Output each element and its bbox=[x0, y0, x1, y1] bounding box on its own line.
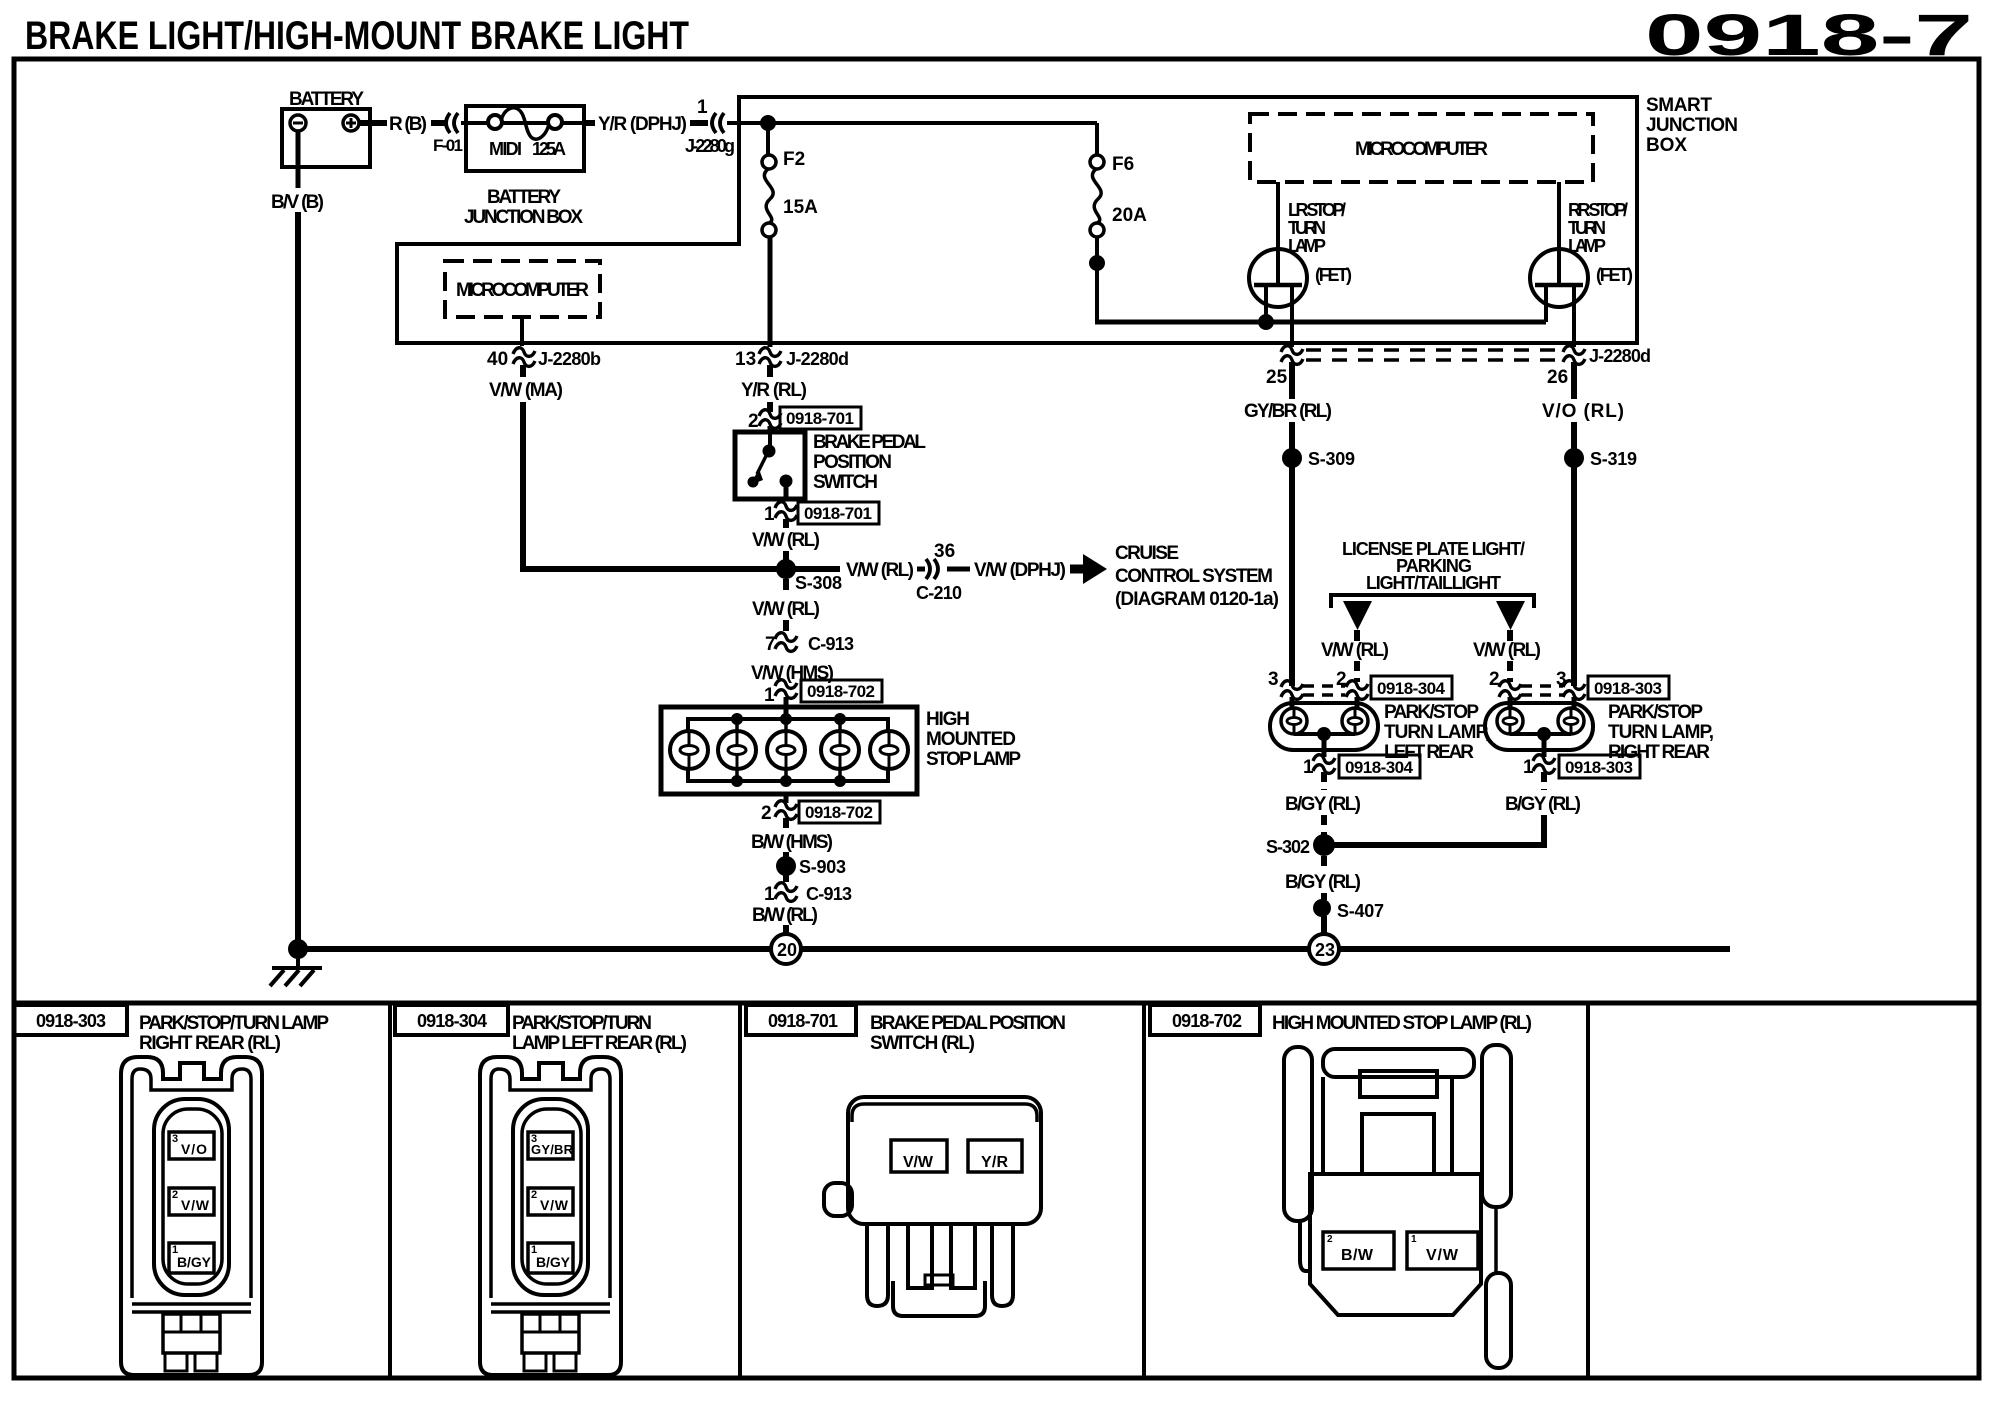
svg-text:2: 2 bbox=[761, 803, 772, 824]
svg-text:S-319: S-319 bbox=[1590, 449, 1637, 469]
wire S-302 down bbox=[1321, 856, 1327, 870]
svg-text:15A: 15A bbox=[783, 197, 818, 218]
svg-text:1: 1 bbox=[764, 685, 775, 706]
svg-text:BRAKE LIGHT/HIGH-MOUNT BRAKE L: BRAKE LIGHT/HIGH-MOUNT BRAKE LIGHT bbox=[25, 14, 689, 58]
connector pin 40 J-2280b bbox=[520, 317, 524, 346]
node junction at F2 branch bbox=[760, 115, 776, 131]
wire into lamp bbox=[784, 697, 789, 719]
svg-text:25: 25 bbox=[1266, 367, 1288, 388]
svg-text:STOP LAMP: STOP LAMP bbox=[926, 749, 1021, 770]
node LR FET source to rail bbox=[1258, 314, 1274, 330]
panel 2 header 0918-304 bbox=[395, 1005, 508, 1035]
svg-text:V/W (DPHJ): V/W (DPHJ) bbox=[974, 560, 1066, 581]
wire to ground 23 bbox=[1321, 916, 1327, 936]
svg-text:3: 3 bbox=[1556, 669, 1567, 690]
connector J-2280g pin 1 bbox=[712, 113, 724, 133]
svg-text:CONTROL SYSTEM: CONTROL SYSTEM bbox=[1115, 566, 1273, 587]
main frame bbox=[14, 59, 1979, 1003]
svg-text:B/V (B): B/V (B) bbox=[271, 192, 324, 213]
battery negative wire B/V (B) bbox=[296, 131, 301, 188]
svg-text:0918-702: 0918-702 bbox=[1172, 1011, 1242, 1031]
connector 0918-304 pins 3,2 (left rear lamp) bbox=[1268, 669, 1452, 699]
connector pin 2 0918-702 bbox=[775, 801, 797, 820]
svg-text:V/W (MA): V/W (MA) bbox=[489, 380, 563, 401]
wire bbox=[584, 120, 595, 126]
wire down to F2 bbox=[766, 123, 770, 155]
svg-text:GY/BR (RL): GY/BR (RL) bbox=[1244, 401, 1332, 422]
svg-text:CRUISE: CRUISE bbox=[1115, 543, 1179, 564]
microcomputer (right) bbox=[1250, 114, 1593, 182]
svg-text:B/GY (RL): B/GY (RL) bbox=[1505, 794, 1581, 815]
arrow feed right bbox=[1496, 601, 1525, 641]
svg-text:1: 1 bbox=[1303, 757, 1314, 778]
svg-text:BATTERY: BATTERY bbox=[289, 89, 364, 110]
svg-text:MIDI: MIDI bbox=[489, 139, 522, 159]
svg-text:F6: F6 bbox=[1112, 154, 1134, 175]
node ground junction bbox=[288, 939, 308, 959]
svg-text:TURN LAMP,: TURN LAMP, bbox=[1608, 722, 1714, 743]
wire right lamp to S-302 bbox=[1324, 815, 1544, 845]
connector C-913 pin 7 bbox=[775, 633, 797, 652]
svg-text:B/W (HMS): B/W (HMS) bbox=[751, 832, 833, 853]
wire V/O down to lamp bbox=[1571, 422, 1577, 686]
svg-text:S-407: S-407 bbox=[1337, 901, 1384, 921]
panel 4 header 0918-702 bbox=[1150, 1005, 1260, 1035]
fuse F6 20A bbox=[1090, 155, 1104, 237]
svg-text:36: 36 bbox=[934, 541, 955, 562]
svg-text:13: 13 bbox=[735, 349, 756, 370]
svg-text:2: 2 bbox=[531, 1189, 537, 1201]
svg-text:R (B): R (B) bbox=[389, 114, 427, 135]
svg-text:MOUNTED: MOUNTED bbox=[926, 729, 1016, 750]
connector pin 1 0918-702 bbox=[775, 680, 797, 699]
wire S-308 right bbox=[786, 566, 840, 572]
wire bbox=[917, 567, 925, 572]
svg-text:B/GY: B/GY bbox=[536, 1254, 571, 1270]
brake pedal position switch bbox=[735, 432, 805, 499]
svg-text:1: 1 bbox=[697, 97, 708, 118]
wire to S-308 bbox=[783, 551, 789, 562]
svg-text:POSITION: POSITION bbox=[813, 452, 892, 473]
transistor LR FET bbox=[1249, 249, 1307, 347]
wire bbox=[783, 852, 789, 858]
wire V/W (MA) down and right to S-308 bbox=[523, 402, 778, 569]
svg-text:20: 20 bbox=[777, 940, 797, 960]
wire right pin1 down bbox=[1541, 772, 1547, 790]
svg-text:(DIAGRAM 0120-1a): (DIAGRAM 0120-1a) bbox=[1115, 589, 1279, 610]
svg-text:J-2280d: J-2280d bbox=[1589, 346, 1651, 366]
wire bbox=[461, 121, 468, 125]
wire to lamp pin 2 right bbox=[1507, 661, 1513, 682]
panel 3 header 0918-701 bbox=[746, 1005, 856, 1035]
svg-text:TURN LAMP,: TURN LAMP, bbox=[1384, 722, 1490, 743]
node S-407 bbox=[1313, 899, 1331, 917]
connector drawing 0918-304 (left rear lamp connector) bbox=[480, 1057, 621, 1375]
svg-text:LIGHT/TAILLIGHT: LIGHT/TAILLIGHT bbox=[1366, 573, 1501, 593]
connector 0918-303 pins 2,3 (right rear lamp) bbox=[1489, 669, 1669, 699]
connector J-2280d pins 25/26 bbox=[1266, 346, 1651, 388]
svg-text:LR STOP/: LR STOP/ bbox=[1288, 200, 1346, 220]
wire F6 down bbox=[1095, 237, 1099, 322]
node below F6 bbox=[1089, 255, 1105, 271]
svg-text:C-210: C-210 bbox=[916, 583, 962, 603]
fuse F2 15A bbox=[762, 155, 776, 237]
svg-text:TURN: TURN bbox=[1288, 218, 1326, 238]
svg-text:TURN: TURN bbox=[1568, 218, 1606, 238]
svg-text:BRAKE PEDAL POSITION: BRAKE PEDAL POSITION bbox=[870, 1013, 1066, 1034]
svg-text:0918-303: 0918-303 bbox=[36, 1011, 106, 1031]
wire pin 26 bbox=[1571, 362, 1577, 399]
svg-text:V/W: V/W bbox=[181, 1197, 210, 1213]
wire gate RR FET bbox=[1557, 182, 1561, 285]
transistor RR FET bbox=[1530, 249, 1588, 347]
node S-309 bbox=[1282, 448, 1302, 468]
svg-text:V/W: V/W bbox=[540, 1197, 569, 1213]
wire bbox=[768, 426, 773, 433]
svg-text:0918-304: 0918-304 bbox=[1345, 758, 1414, 777]
bracket to license plate light bbox=[1331, 595, 1534, 608]
svg-text:J-2280d: J-2280d bbox=[786, 349, 849, 369]
svg-text:V/W: V/W bbox=[1426, 1247, 1459, 1264]
svg-text:B/W (RL): B/W (RL) bbox=[752, 905, 818, 926]
ground symbol bbox=[270, 954, 322, 986]
wire bbox=[783, 818, 789, 830]
svg-text:J-2280b: J-2280b bbox=[538, 349, 601, 369]
wire battery positive to R (B) bbox=[359, 120, 387, 126]
wire bbox=[947, 567, 970, 572]
svg-text:7: 7 bbox=[765, 634, 776, 655]
svg-text:GY/BR: GY/BR bbox=[531, 1142, 574, 1157]
svg-text:0918-701: 0918-701 bbox=[786, 409, 854, 428]
svg-text:0918-701: 0918-701 bbox=[768, 1011, 838, 1031]
svg-text:HIGH MOUNTED STOP LAMP (RL): HIGH MOUNTED STOP LAMP (RL) bbox=[1272, 1013, 1532, 1034]
svg-text:2: 2 bbox=[1489, 669, 1500, 690]
svg-text:B/GY (RL): B/GY (RL) bbox=[1285, 872, 1361, 893]
svg-text:2: 2 bbox=[748, 411, 759, 432]
svg-text:SMART: SMART bbox=[1646, 95, 1712, 116]
svg-text:0918-303: 0918-303 bbox=[1565, 758, 1633, 777]
svg-text:V/W (RL): V/W (RL) bbox=[846, 560, 914, 581]
svg-text:BRAKE PEDAL: BRAKE PEDAL bbox=[813, 432, 926, 453]
wire F2 to J-2280d pin 13 bbox=[768, 237, 773, 347]
node S-302 bbox=[1313, 834, 1335, 856]
connector drawing 0918-701 (brake pedal position switch connector) bbox=[824, 1097, 1041, 1316]
connector F-01 bbox=[446, 113, 458, 133]
connector C-210 pin 36 bbox=[926, 559, 938, 579]
high mounted stop lamp bbox=[661, 707, 917, 794]
svg-text:23: 23 bbox=[1315, 940, 1335, 960]
svg-text:JUNCTION BOX: JUNCTION BOX bbox=[464, 207, 583, 228]
svg-text:RR STOP/: RR STOP/ bbox=[1568, 200, 1628, 220]
svg-text:2: 2 bbox=[172, 1189, 178, 1201]
svg-text:S-903: S-903 bbox=[799, 857, 846, 877]
wire bbox=[783, 519, 789, 528]
svg-text:PARK/STOP/TURN LAMP: PARK/STOP/TURN LAMP bbox=[139, 1013, 329, 1034]
wire bbox=[431, 120, 445, 126]
wire GY/BR down to lamp bbox=[1289, 422, 1295, 686]
wire to ground 20 bbox=[783, 925, 789, 936]
panel 1 header 0918-303 bbox=[14, 1005, 127, 1035]
svg-text:Y/R (DPHJ): Y/R (DPHJ) bbox=[598, 114, 687, 135]
svg-text:125A: 125A bbox=[532, 139, 566, 159]
svg-text:1: 1 bbox=[764, 504, 775, 525]
svg-text:(FET): (FET) bbox=[1596, 265, 1633, 285]
connector drawing 0918-702 (high mounted stop lamp connector) bbox=[1284, 1045, 1511, 1368]
svg-text:HIGH: HIGH bbox=[926, 709, 970, 730]
ground connector 20 bbox=[771, 934, 801, 964]
svg-text:MICROCOMPUTER: MICROCOMPUTER bbox=[1355, 139, 1488, 160]
svg-text:LAMP LEFT REAR (RL): LAMP LEFT REAR (RL) bbox=[512, 1033, 687, 1054]
svg-text:0918-304: 0918-304 bbox=[417, 1011, 487, 1031]
svg-text:3: 3 bbox=[172, 1133, 178, 1145]
svg-text:V/W: V/W bbox=[903, 1154, 934, 1171]
svg-text:S-309: S-309 bbox=[1308, 449, 1355, 469]
svg-text:0918-304: 0918-304 bbox=[1377, 679, 1446, 698]
svg-text:PARK/STOP/TURN: PARK/STOP/TURN bbox=[512, 1013, 652, 1034]
connector C-913 pin 1 bbox=[775, 883, 797, 902]
svg-text:J-2280g: J-2280g bbox=[685, 136, 735, 156]
svg-text:1: 1 bbox=[1523, 757, 1534, 778]
wire bbox=[1321, 893, 1327, 900]
svg-text:V/W (RL): V/W (RL) bbox=[752, 530, 820, 551]
svg-text:(FET): (FET) bbox=[1315, 265, 1352, 285]
microcomputer (left) bbox=[445, 261, 600, 317]
svg-text:F-01: F-01 bbox=[433, 136, 463, 155]
wire gate LR FET bbox=[1276, 182, 1280, 285]
wire bbox=[690, 120, 708, 126]
connector pin 1 0918-701 bbox=[775, 502, 797, 521]
svg-text:3: 3 bbox=[1268, 669, 1279, 690]
svg-text:C-913: C-913 bbox=[806, 884, 852, 904]
connector drawing 0918-303 (right rear lamp connector) bbox=[121, 1057, 262, 1375]
bottom panel row bbox=[14, 1003, 1979, 1378]
fuse MIDI 125A (battery junction box) bbox=[466, 106, 584, 171]
node S-903 bbox=[776, 856, 796, 876]
wires into right lamp bbox=[1508, 697, 1513, 708]
svg-text:V/O (RL): V/O (RL) bbox=[1542, 401, 1624, 422]
arrow feed left (from license plate light circuit) bbox=[1343, 601, 1372, 641]
svg-text:RIGHT REAR (RL): RIGHT REAR (RL) bbox=[139, 1033, 281, 1054]
svg-text:BOX: BOX bbox=[1646, 135, 1687, 156]
svg-text:V/W (RL): V/W (RL) bbox=[1473, 640, 1541, 661]
svg-text:BATTERY: BATTERY bbox=[487, 187, 561, 208]
wires into left lamp bbox=[1290, 697, 1295, 708]
svg-text:V/O: V/O bbox=[181, 1141, 207, 1157]
wire bbox=[783, 874, 789, 884]
svg-text:40: 40 bbox=[487, 349, 508, 370]
ground bus bbox=[298, 946, 1730, 952]
ground connector 23 bbox=[1309, 934, 1339, 964]
wire rail to FETs bbox=[1095, 320, 1546, 325]
wire out of lamp bbox=[784, 794, 789, 803]
svg-text:26: 26 bbox=[1547, 367, 1568, 388]
wire Y/R down to switch pin 2 bbox=[767, 402, 773, 412]
svg-text:2: 2 bbox=[1336, 669, 1347, 690]
svg-text:1: 1 bbox=[1411, 1234, 1417, 1245]
svg-text:2: 2 bbox=[1327, 1234, 1333, 1245]
svg-text:0918-702: 0918-702 bbox=[805, 803, 873, 822]
battery bbox=[282, 109, 370, 167]
svg-text:C-913: C-913 bbox=[808, 634, 854, 654]
svg-text:0918-701: 0918-701 bbox=[804, 504, 872, 523]
wire bbox=[783, 620, 789, 634]
svg-text:MICROCOMPUTER: MICROCOMPUTER bbox=[456, 280, 589, 301]
wire left pin1 down bbox=[1321, 772, 1327, 790]
wire to lamp pin 2 left bbox=[1354, 661, 1360, 682]
svg-text:B/GY: B/GY bbox=[177, 1254, 212, 1270]
svg-text:0918-303: 0918-303 bbox=[1594, 679, 1662, 698]
connector pin 13 J-2280d bbox=[759, 348, 781, 367]
node S-319 bbox=[1564, 448, 1584, 468]
svg-text:V/W (RL): V/W (RL) bbox=[752, 599, 820, 620]
svg-text:Y/R (RL): Y/R (RL) bbox=[741, 380, 807, 401]
connector 0918-303 pin 1 bbox=[1533, 755, 1555, 774]
svg-text:S-302: S-302 bbox=[1266, 837, 1310, 857]
connector 0918-304 pin 1 bbox=[1313, 755, 1335, 774]
svg-text:SWITCH: SWITCH bbox=[813, 472, 878, 493]
svg-text:1: 1 bbox=[764, 884, 775, 905]
wire S-308 down bbox=[783, 579, 789, 598]
wire pin 25 bbox=[1289, 362, 1295, 399]
svg-text:JUNCTION: JUNCTION bbox=[1646, 115, 1738, 136]
wire bbox=[1321, 815, 1327, 837]
svg-text:B/W: B/W bbox=[1341, 1247, 1374, 1264]
svg-text:V/W (RL): V/W (RL) bbox=[1321, 640, 1389, 661]
svg-text:B/GY (RL): B/GY (RL) bbox=[1285, 794, 1361, 815]
arrow to cruise control system bbox=[1070, 554, 1107, 584]
svg-text:S-308: S-308 bbox=[795, 573, 842, 593]
svg-text:0918-702: 0918-702 bbox=[807, 682, 875, 701]
wire J-2280g to F6 drop bbox=[727, 121, 1097, 125]
svg-text:SWITCH (RL): SWITCH (RL) bbox=[870, 1033, 975, 1054]
svg-text:Y/R: Y/R bbox=[981, 1154, 1008, 1171]
smart junction box outline bbox=[397, 97, 1637, 343]
svg-text:PARK/STOP: PARK/STOP bbox=[1384, 702, 1479, 723]
svg-text:PARK/STOP: PARK/STOP bbox=[1608, 702, 1703, 723]
svg-text:20A: 20A bbox=[1112, 205, 1147, 226]
wire down to F6 bbox=[1095, 123, 1099, 155]
node S-308 bbox=[776, 559, 796, 579]
svg-text:F2: F2 bbox=[783, 149, 805, 170]
connector pin 2 0918-701 bbox=[759, 410, 781, 429]
park/stop turn lamp left rear bbox=[1270, 703, 1378, 757]
park/stop turn lamp right rear bbox=[1485, 703, 1593, 757]
